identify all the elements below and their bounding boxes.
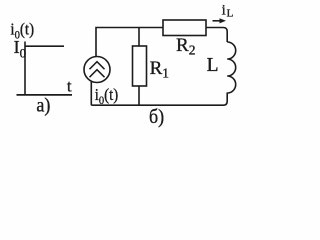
svg-text:a): a) <box>36 95 50 117</box>
svg-text:t: t <box>67 76 72 95</box>
graph a) t axis <box>17 94 73 96</box>
wire bottom with rounded right corner <box>91 93 227 106</box>
svg-text:б): б) <box>149 106 164 128</box>
svg-text:R1: R1 <box>150 58 169 81</box>
wire R2 right to top-right corner <box>206 28 227 43</box>
iL current arrow <box>213 20 221 22</box>
wire source bottom to bottom wire <box>90 81 92 106</box>
svg-text:i0(t): i0(t) <box>95 86 118 107</box>
wire R1 top stub <box>138 28 140 47</box>
graph a) axis vertical <box>24 42 26 96</box>
current source U circle <box>84 57 110 83</box>
current source chevron upper <box>90 62 105 69</box>
resistor R1 box <box>133 46 147 86</box>
resistor R2 box <box>163 20 206 36</box>
svg-text:L: L <box>227 8 234 20</box>
inductor L coil <box>227 42 236 93</box>
svg-text:R2: R2 <box>176 35 195 58</box>
wire top-left corner and top wire <box>96 28 163 57</box>
svg-text:i: i <box>222 2 226 18</box>
current source chevron lower <box>90 70 105 78</box>
svg-text:L: L <box>207 55 219 76</box>
wire R1 bottom stub <box>138 86 140 105</box>
graph a) I0 level step line <box>25 45 64 47</box>
